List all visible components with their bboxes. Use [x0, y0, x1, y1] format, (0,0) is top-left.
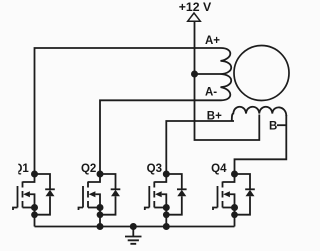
transistor Q1 source lead: [23, 207, 35, 209]
wire Q1 source to ground rail: [34, 208, 36, 227]
ground symbol: [125, 227, 142, 244]
wire A+ : coil top to Q1 drain: [35, 48, 222, 174]
junction Q3 at ground rail: [163, 223, 170, 230]
ground rail wire: [35, 226, 235, 228]
transistor Q4 gate bar: [217, 186, 219, 208]
wire +12V vertical rail down to B-winding tap run: [195, 21, 260, 140]
wire Q3 source to ground rail: [165, 208, 167, 227]
junction Q1 drain: [31, 171, 38, 178]
transistor Q4 gate lead stub: [213, 208, 218, 211]
transistor Q3 channel segments: [153, 182, 155, 208]
body diode of Q3 triangle: [177, 190, 186, 197]
transistor Q2 (N-MOSFET) drain lead: [88, 174, 100, 182]
junction Q3 source/diode return: [163, 211, 170, 218]
transistor Q2 gate lead stub: [79, 208, 84, 211]
wire Q2 source to ground rail: [99, 208, 101, 227]
junction +12V / winding A center tap: [191, 71, 198, 78]
transistor Q3 (N-MOSFET) drain lead: [154, 174, 166, 182]
junction Q1 source: [31, 204, 38, 211]
svg-text:A+: A+: [205, 35, 220, 47]
svg-text:A-: A-: [205, 87, 217, 99]
junction Q3 drain: [163, 171, 170, 178]
body diode of Q2 cathode bar: [111, 188, 121, 190]
transistor Q1 gate bar: [17, 186, 19, 208]
junction Q2 source: [97, 204, 104, 211]
transistor Q4 source lead: [223, 207, 235, 209]
wire winding A center tap: [195, 73, 221, 75]
junction Q4 source/diode return: [231, 211, 238, 218]
transistor Q2 source lead: [88, 207, 100, 209]
wire A- : coil bottom to Q2 drain: [100, 100, 221, 174]
body diode of Q3: [166, 174, 182, 215]
transistor Q2 body lead with arrow: [95, 194, 100, 207]
body diode of Q1 cathode bar: [45, 188, 55, 190]
transistor Q2 gate bar: [82, 186, 84, 208]
transistor Q3 source lead: [154, 207, 166, 209]
transistor Q3 gate lead stub: [145, 208, 150, 211]
body diode of Q2 triangle: [111, 190, 120, 197]
junction ground tap: [130, 223, 137, 230]
svg-text:B: B: [269, 120, 277, 132]
transistor Q4 channel segments: [222, 182, 224, 208]
transistor Q4 body lead with arrow: [230, 194, 235, 207]
junction Q2 drain: [97, 171, 104, 178]
junction Q2 source/diode return: [97, 211, 104, 218]
svg-text:+12 V: +12 V: [179, 0, 212, 14]
lead dash of B- label: [277, 124, 286, 126]
transistor Q1 channel segments: [22, 182, 24, 208]
transistor Q3 gate bar: [148, 186, 150, 208]
junction Q4 drain: [231, 171, 238, 178]
body diode of Q2: [100, 174, 116, 215]
junction Q1 source/diode return: [31, 211, 38, 218]
power supply symbol +12V (open triangle): [188, 13, 201, 21]
svg-text:Q2: Q2: [81, 163, 96, 175]
winding A (motor phase A, 4 bumps, center tapped): [221, 48, 232, 100]
body diode of Q1: [35, 174, 51, 215]
wire B+ : coil left end to Q3 drain: [166, 121, 234, 174]
transistor Q2 channel segments: [87, 182, 89, 208]
junction Q2 at ground rail: [97, 223, 104, 230]
body diode of Q4 cathode bar: [245, 188, 255, 190]
transistor Q4 (N-MOSFET) drain lead: [223, 174, 235, 182]
junction Q4 source: [231, 204, 238, 211]
svg-text:Q3: Q3: [147, 163, 162, 175]
transistor Q3 body lead with arrow: [162, 194, 167, 207]
rotor of stepper motor: [234, 46, 289, 101]
winding B (motor phase B, 4 bumps, center tapped): [232, 107, 286, 121]
wire B- : coil right end to Q4 drain: [235, 115, 287, 174]
junction Q3 source: [163, 204, 170, 211]
transistor Q1 gate lead stub: [13, 208, 18, 211]
body diode of Q4 triangle: [246, 190, 255, 197]
svg-text:Q4: Q4: [211, 163, 227, 175]
body diode of Q4: [235, 174, 251, 215]
body diode of Q3 cathode bar: [177, 188, 187, 190]
transistor Q1 body lead with arrow: [30, 194, 35, 207]
body diode of Q1 triangle: [46, 190, 55, 197]
transistor Q1 (N-MOSFET) drain lead: [23, 174, 35, 182]
wire Q4 source to ground rail: [234, 208, 236, 227]
